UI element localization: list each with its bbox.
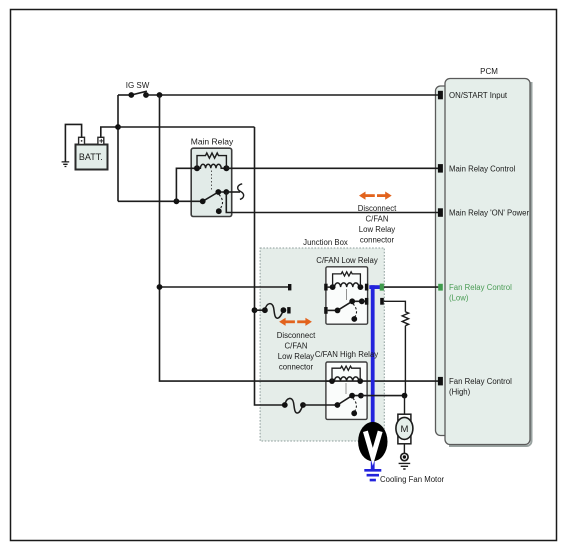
wire: stub to harness squiggle	[226, 191, 240, 193]
wire: IG SW feed vertical from node A	[117, 95, 119, 201]
motor ground ring terminal	[401, 453, 408, 460]
wire: IG SW row left stub	[118, 94, 131, 96]
ground (motor)	[399, 463, 411, 469]
PCM rear module box	[436, 86, 476, 436]
dangling wire wave (low relay common)	[265, 304, 284, 319]
svg-text:Disconnect: Disconnect	[358, 204, 397, 213]
wire: B+ vertical drop to relays common feed	[255, 127, 285, 405]
C/FAN low relay box	[326, 267, 368, 324]
svg-text:Low Relay: Low Relay	[278, 352, 315, 361]
wire: low relay coil feed (disconnected)	[160, 286, 289, 288]
junction dot low relay common branch	[252, 307, 258, 313]
disconnect arrows (lower)	[279, 318, 312, 326]
low relay bypass resistor	[333, 272, 361, 287]
high relay bypass resistor	[332, 366, 360, 381]
svg-text:PCM: PCM	[480, 67, 498, 76]
svg-text:C/FAN: C/FAN	[285, 342, 308, 351]
svg-text:(Low): (Low)	[449, 294, 469, 303]
PCM pin Fan Relay Control Low (green)	[438, 284, 443, 291]
low relay throw dashed arc	[353, 304, 357, 317]
high relay switch arm	[335, 393, 364, 408]
low relay plunger link	[346, 289, 348, 300]
PCM box	[445, 79, 530, 445]
svg-text:connector: connector	[360, 236, 395, 245]
disconnect arrows (upper)	[359, 192, 392, 200]
wire: resistor to motor junction	[404, 326, 406, 395]
wire: battery positive to junction node A	[101, 127, 118, 137]
svg-text:Main Relay 'ON' Power: Main Relay 'ON' Power	[449, 209, 530, 218]
C/FAN high relay box	[326, 362, 367, 419]
ground (voltmeter, blue)	[364, 470, 381, 480]
ignition switch IG SW arm	[131, 91, 147, 95]
node A junction dot	[115, 124, 121, 130]
wire: main relay common feed row	[118, 200, 203, 202]
blue test lead vertical to voltmeter	[371, 285, 375, 470]
voltmeter V	[358, 422, 387, 461]
wire: main relay output to PCM 'ON' power	[226, 192, 438, 213]
harness squiggle mark	[238, 184, 244, 200]
blue test lead horizontal	[369, 285, 380, 289]
junction box green pin (Fan Relay Control Low)	[380, 284, 384, 291]
low relay switch arm	[335, 298, 365, 313]
svg-text:Cooling Fan Motor: Cooling Fan Motor	[380, 475, 445, 484]
svg-text:Low Relay: Low Relay	[359, 225, 396, 234]
low relay switch left pin	[324, 307, 327, 314]
junction dot coil feed branch	[157, 284, 163, 290]
disconnected harness pin (coil row)	[288, 284, 291, 290]
junction box (dashed enclosure)	[260, 248, 384, 441]
svg-text:connector: connector	[279, 363, 314, 372]
wire: green pin to PCM	[384, 286, 439, 288]
high relay NO contact dot	[351, 410, 357, 416]
disconnect note (lower)	[277, 331, 316, 372]
main relay bypass resistor	[197, 153, 226, 168]
main relay throw dashed arc	[219, 195, 223, 210]
low relay coil	[328, 283, 364, 290]
main relay box	[191, 148, 232, 216]
svg-text:Main Relay Control: Main Relay Control	[449, 165, 516, 174]
low relay NO contact dot	[351, 316, 357, 322]
svg-text:Disconnect: Disconnect	[277, 331, 316, 340]
svg-text:(High): (High)	[449, 388, 471, 397]
ground (battery)	[62, 162, 70, 167]
high relay coil	[326, 377, 363, 384]
svg-text:C/FAN High Relay: C/FAN High Relay	[315, 350, 378, 359]
battery BATT. body	[76, 145, 108, 170]
wire: main relay coil to PCM main relay control	[226, 167, 438, 169]
PCM pin Main Relay Control	[438, 164, 443, 173]
svg-text:Main Relay: Main Relay	[191, 137, 234, 147]
wire: motor to chassis terminal	[403, 444, 405, 453]
high relay plunger link	[345, 383, 347, 394]
svg-text:IG SW: IG SW	[126, 81, 150, 90]
main relay switch arm	[200, 189, 229, 204]
wire: junction down to motor	[404, 396, 406, 415]
main relay NO contact dot	[216, 208, 222, 214]
low relay coil right pin	[365, 284, 368, 291]
svg-text:C/FAN Low Relay: C/FAN Low Relay	[316, 256, 378, 265]
main relay coil	[194, 164, 229, 171]
wire: B+ line node A to corner x254	[118, 126, 255, 128]
battery negative terminal	[79, 137, 85, 144]
junction dot main relay coil branch	[174, 198, 180, 204]
low relay coil left pin	[324, 284, 327, 291]
wire: high relay output to motor junction	[361, 395, 405, 397]
PCM box shadow	[449, 82, 532, 446]
node B junction dot (IG SW branch)	[157, 92, 163, 98]
main relay plunger dotted link	[211, 171, 213, 191]
svg-text:BATT.: BATT.	[79, 152, 103, 162]
cooling fan motor M	[396, 414, 413, 444]
wire: wave to high relay common	[303, 404, 337, 406]
svg-text:Fan Relay Control: Fan Relay Control	[449, 377, 512, 386]
svg-text:M: M	[400, 424, 408, 435]
dropping resistor (vertical zigzag)	[402, 312, 408, 326]
wire: ignition vertical bus to fan relay coils	[160, 95, 439, 381]
svg-text:ON/START Input: ON/START Input	[449, 91, 508, 100]
high relay throw dashed arc	[353, 398, 357, 411]
disconnect note (upper)	[358, 204, 397, 245]
motor junction dot	[402, 393, 408, 399]
junction box pin (resistor branch)	[380, 298, 384, 305]
svg-text:Fan Relay Control: Fan Relay Control	[449, 283, 512, 292]
wire: pin to dropping resistor	[384, 301, 406, 312]
svg-text:Junction Box: Junction Box	[303, 238, 348, 247]
wire: pin to common	[328, 309, 338, 311]
wire: switch pin to junction box pin	[362, 300, 365, 302]
wire: branch up to main relay coil	[176, 168, 197, 201]
battery positive terminal	[98, 137, 104, 144]
PCM pin Main Relay ON Power	[438, 208, 443, 217]
wire: IG SW to PCM ON/START input	[146, 94, 438, 96]
PCM pin Fan Relay Control High	[438, 377, 443, 386]
IG SW contact dots	[128, 92, 134, 98]
PCM pin ON/START	[438, 91, 443, 100]
svg-text:C/FAN: C/FAN	[366, 215, 389, 224]
wire: common branch stub	[255, 309, 265, 311]
wire: battery negative lead to ground	[65, 124, 81, 161]
dangling wave (high relay common feed)	[285, 398, 303, 413]
disconnected harness pin (common row)	[287, 307, 290, 313]
low relay switch right pin	[365, 298, 368, 305]
